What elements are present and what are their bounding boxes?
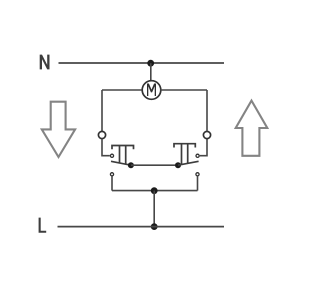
contact circle left lower [110,173,113,176]
switch lever right [178,161,199,165]
arrow up (raise direction, right) [236,101,268,156]
contact circle right upper [196,154,199,157]
terminal circle left [98,131,105,138]
wire left arm down [101,90,103,131]
wire bus junction down to L [153,191,155,227]
wire motor left arm [102,89,142,91]
motor M [142,81,161,100]
switch lever left [111,161,131,165]
junction dot on L line [151,223,158,230]
terminal circle right [203,131,210,138]
junction dot on bottom bus [151,187,158,194]
wire left lower contact down [111,176,113,190]
wire N line [59,62,225,64]
wire motor right arm [160,89,207,91]
contact circle left upper [110,154,113,157]
push-button actuator right [174,144,195,165]
wire left terminal to upper contact [102,139,110,156]
arrow down (lower direction, left) [42,102,75,157]
wire right arm up [206,90,208,131]
pivot dot left [128,162,134,168]
wire bottom bus [112,190,198,192]
coupling bar between levers [131,164,178,166]
wire N junction to motor [150,63,152,81]
wire right lower contact down [197,176,199,190]
wire L line [58,226,225,228]
node N label [40,55,50,70]
wire right upper contact to terminal [200,139,207,156]
node L label [39,218,47,233]
junction dot on N line [147,60,154,67]
pivot dot right [175,162,181,168]
contact circle right lower [196,173,199,176]
push-button actuator left [112,146,134,165]
